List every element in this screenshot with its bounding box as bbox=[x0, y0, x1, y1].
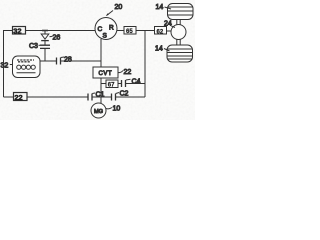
svg-text:28: 28 bbox=[64, 57, 72, 64]
CVT box bbox=[93, 67, 118, 78]
wire C1 to C2 bbox=[92, 96, 112, 98]
svg-text:65: 65 bbox=[126, 29, 133, 35]
label 22 bbox=[118, 71, 123, 73]
wire shaft CVT to MG bbox=[100, 78, 102, 103]
wire top bus to planetary bbox=[26, 30, 96, 32]
planetary gear unit 20 circle bbox=[95, 18, 117, 40]
gear box 67 bbox=[106, 80, 118, 88]
label C4 bbox=[126, 78, 131, 81]
svg-text:MG: MG bbox=[94, 109, 103, 115]
wire shaft planetary to CVT bbox=[100, 39, 102, 67]
differential 24 circle bbox=[171, 25, 186, 40]
svg-text:22: 22 bbox=[14, 93, 22, 102]
wire branch to gear 67 bbox=[101, 83, 106, 85]
svg-text:14: 14 bbox=[155, 46, 163, 53]
svg-text:C3: C3 bbox=[29, 43, 38, 50]
wheel top 14 bbox=[168, 4, 194, 20]
MG motor generator circle bbox=[91, 103, 106, 118]
wire bottom bus to C1 bbox=[27, 96, 88, 98]
wire C4 to right vertical bbox=[126, 83, 146, 85]
axle shaft upper (double line) bbox=[177, 20, 180, 25]
svg-text:C2: C2 bbox=[120, 91, 129, 98]
gear box 65 bbox=[124, 27, 136, 35]
wire C2 to right vertical bbox=[116, 96, 146, 98]
capacitor 28 bars bbox=[57, 58, 61, 65]
svg-text:32: 32 bbox=[1, 63, 9, 70]
wire gear 67 to capacitor C4 bbox=[118, 83, 122, 85]
wheel bottom 14 bbox=[167, 45, 193, 62]
svg-text:67: 67 bbox=[108, 82, 115, 88]
svg-text:C4: C4 bbox=[132, 79, 141, 86]
junction tick battery bus bbox=[98, 60, 101, 62]
wire battery bus y=61 bbox=[40, 60, 56, 62]
capacitor C2 bars bbox=[112, 94, 116, 101]
junction node at x=45 top bus bbox=[42, 30, 48, 32]
label 28 bbox=[61, 56, 64, 59]
wire left vertical bus bbox=[3, 30, 5, 97]
wire from junction down to one-way clutch bbox=[44, 31, 46, 35]
wire gear 65 to gear 62 bbox=[136, 30, 155, 32]
label C2 bbox=[116, 93, 119, 94]
label 10 bbox=[106, 108, 112, 109]
svg-text:26: 26 bbox=[53, 35, 61, 42]
label 26 bbox=[50, 35, 53, 38]
wire bottom bus bbox=[4, 96, 14, 98]
wire planetary to gear 65 bbox=[117, 30, 124, 32]
svg-text:14: 14 bbox=[156, 4, 164, 11]
wire top bus left segment bbox=[4, 30, 13, 32]
axle shaft lower (double line) bbox=[177, 39, 180, 45]
battery cells (four circles) bbox=[17, 65, 21, 69]
battery 32 rounded box bbox=[13, 56, 41, 78]
battery text squiggle bbox=[17, 60, 34, 62]
wire right vertical bus bbox=[144, 31, 146, 98]
gear box 62 bbox=[155, 27, 167, 35]
wire gear 62 to differential bbox=[167, 30, 172, 32]
svg-text:R: R bbox=[109, 25, 114, 32]
svg-text:32: 32 bbox=[13, 27, 21, 36]
svg-text:10: 10 bbox=[113, 106, 121, 113]
svg-text:CVT: CVT bbox=[99, 71, 113, 77]
battery lower line bbox=[17, 72, 36, 74]
one-way clutch 26 (diode symbol) bbox=[41, 34, 49, 39]
brake B1 box (top left, hatched) bbox=[13, 27, 26, 35]
svg-text:24: 24 bbox=[164, 21, 172, 28]
wire capacitor 28 to shaft junction bbox=[61, 60, 102, 62]
wire C3 down to battery bus bbox=[44, 48, 46, 61]
capacitor C4 bars bbox=[122, 80, 126, 87]
capacitor C3 bars bbox=[40, 45, 50, 48]
brake B2 box (bottom left, hatched) bbox=[14, 93, 28, 101]
svg-text:22: 22 bbox=[124, 69, 132, 76]
label C1 bbox=[92, 92, 95, 95]
svg-text:S: S bbox=[103, 33, 108, 40]
capacitor C1 bars bbox=[88, 94, 92, 101]
svg-text:62: 62 bbox=[157, 29, 164, 35]
wire clutch to capacitor C3 bbox=[44, 41, 46, 45]
svg-text:20: 20 bbox=[115, 4, 123, 11]
